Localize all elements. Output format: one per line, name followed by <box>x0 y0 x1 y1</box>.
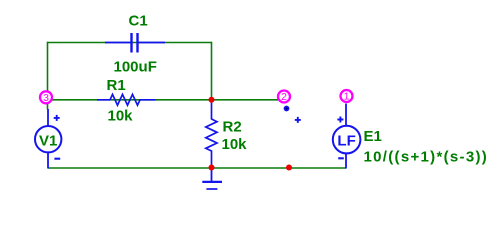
svg-text:V1: V1 <box>39 132 57 149</box>
svg-text:LF: LF <box>337 133 355 150</box>
wire top horizontal <box>48 42 212 44</box>
resistor R2 <box>206 101 217 166</box>
probe plus near node 2 <box>295 117 301 123</box>
svg-text:10k: 10k <box>108 108 134 125</box>
svg-text:R2: R2 <box>223 118 242 135</box>
ground <box>202 168 222 189</box>
junction dot at R2 top <box>209 97 215 103</box>
node 3 <box>40 91 52 104</box>
capacitor C1 <box>105 33 165 53</box>
node 1 <box>341 90 353 103</box>
svg-text:2: 2 <box>281 91 287 103</box>
svg-text:10k: 10k <box>222 136 248 153</box>
controlled source E1 (LF) <box>333 104 361 169</box>
probe dot below node 2 <box>284 106 290 112</box>
svg-text:R1: R1 <box>107 77 126 94</box>
svg-text:C1: C1 <box>129 12 148 29</box>
svg-text:3: 3 <box>43 92 49 104</box>
wire top-left vertical <box>47 42 49 92</box>
node 2 <box>278 91 290 104</box>
svg-text:10/((s+1)*(s-3)): 10/((s+1)*(s-3)) <box>364 148 489 165</box>
source V1 <box>35 109 61 169</box>
junction dot at ground <box>209 165 215 171</box>
svg-text:1: 1 <box>344 91 350 103</box>
junction dot bottom rail <box>286 165 292 171</box>
resistor R1 <box>97 94 156 105</box>
wire node3 down stub <box>47 103 49 110</box>
wire top-right vertical <box>211 42 213 100</box>
wire bottom rail <box>48 167 346 169</box>
svg-text:E1: E1 <box>364 128 382 145</box>
svg-text:100uF: 100uF <box>114 59 157 76</box>
wire middle horizontal node3 to node2 <box>52 99 278 101</box>
